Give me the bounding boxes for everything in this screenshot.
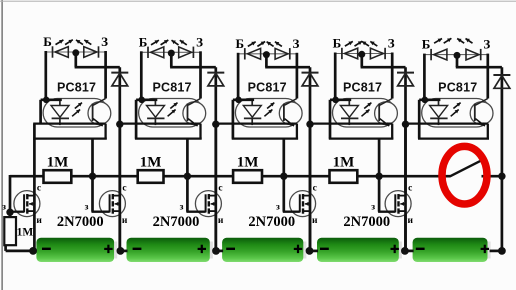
node gate node 4 [375,173,382,180]
wire right collector rail cell 5 [486,54,489,99]
wire emitter drop cell 3 [282,139,285,177]
LED VD5 Б white indicator [244,48,246,59]
battery GB3 [222,238,303,262]
opto U3 internal LED [251,100,253,106]
opto U2 phototransistor [187,104,189,122]
svg-text:и: и [408,216,414,226]
transistor VT1 2N7000 body [14,191,40,217]
label plus GB3 [294,248,302,250]
transistor VT1 drain/source taps and bulk arrow [27,195,34,197]
svg-text:з: з [180,203,184,213]
battery GB4 [317,238,399,262]
wire emitter drop cell 1 [91,139,94,177]
frame top border [0,1,516,2]
wire right collector rail cell 1 [104,51,107,99]
opto U4 internal LED [348,100,350,106]
wire box top edge cell 2 [119,122,201,124]
wire LED row cell 2 [141,51,200,53]
svg-text:з: з [276,203,280,213]
battery GB5 [413,238,488,262]
svg-text:с: с [122,183,126,193]
svg-text:з: з [85,203,89,213]
wire right collector rail cell 4 [391,53,394,99]
svg-text:с: с [37,183,41,193]
wire diode drop vertical cell 1 [118,67,121,251]
red highlight circle [442,146,487,204]
wire box right edge cell 1 [104,124,106,139]
opto U4 phototransistor [378,104,380,122]
svg-text:1M: 1M [140,154,162,170]
svg-text:Б: Б [139,34,148,49]
wire gate lead VT3 [186,211,205,213]
svg-text:1M: 1M [17,227,34,239]
svg-text:Б: Б [235,36,244,51]
LED VD2 З green indicator [98,46,100,57]
svg-text:З: З [388,36,395,51]
transistor VT3 drain/source taps and bulk arrow [209,195,216,197]
wire box right edge cell 5 [487,124,489,139]
node LED junction cell 5 [454,52,461,59]
svg-text:PC817: PC817 [57,80,96,94]
transistor VT4 channel [302,194,304,199]
battery GB2 [127,238,210,262]
wire R5 to battery [4,245,7,251]
label plus GB2 [198,248,206,250]
svg-text:2N7000: 2N7000 [248,214,295,230]
opto U2 light arrows [168,110,176,117]
wire left LED-string drop cell 4 [334,53,337,100]
op­tocoupler U5 PC817 body [422,99,491,128]
node pin1 cell 2 [138,97,145,104]
wire gate drop VT5 [378,176,381,212]
wire switch right stub [482,175,502,178]
svg-text:PC817: PC817 [343,80,382,94]
wire drain-source vertical VT5 [404,124,407,251]
resistor R2 1M [138,170,164,183]
opto U2 internal LED [154,100,156,106]
wire gate drop VT2 [91,176,94,212]
wire emitter drop cell 2 [186,139,189,177]
node diode-box junction cell 1 [116,121,123,128]
node pin1 cell 1 [43,97,50,104]
wire drain-source vertical VT4 [309,124,312,251]
wire gate lead VT4 [283,211,300,213]
node LED junction cell 4 [358,51,365,58]
wire gate drop VT4 [282,176,285,212]
wire box bottom edge cell 1 [33,137,107,139]
label plus GB5 [481,248,489,250]
wire box right edge cell 2 [199,124,201,139]
svg-text:и: и [218,216,224,226]
op­tocoupler U4 PC817 body [333,99,396,128]
svg-text:с: с [408,183,412,193]
wire resistor row segment 4 [262,175,330,178]
transistor VT1 gate bar [23,194,25,212]
wire box top edge cell 3 [215,122,297,124]
wire diode drop vertical cell 3 [309,67,312,251]
wire middle-node to diode cell 5 [456,55,459,68]
node diode-box junction cell 2 [212,121,219,128]
transistor VT2 gate bar [109,194,111,212]
wire left LED-string drop cell 1 [44,51,47,100]
svg-text:Б: Б [43,34,52,49]
wire LED row cell 3 [238,53,297,55]
label plus GB1 [104,248,112,250]
wire left LED-string drop cell 3 [237,53,240,100]
wire battery links [117,250,127,253]
node gate VT1 [6,209,13,216]
wire box bottom edge cell 2 [135,137,202,139]
node gate node 2 [184,173,191,180]
svg-text:и: и [312,216,318,226]
opto U3 phototransistor [283,104,285,122]
wire middle-node to diode cell 2 [170,52,173,67]
wire pin1 anode link cell 2 [136,98,157,101]
transistor VT2 drain/source taps and bulk arrow [113,195,120,197]
wire box left / pin1 vertical cell 3 [232,100,235,139]
svg-text:з: з [371,203,375,213]
diode VD14 cell 4 [397,72,414,74]
diode VD13 cell 3 [302,72,319,74]
svg-text:1M: 1M [333,154,355,170]
wire middle-node to diode cell 1 [74,52,77,67]
svg-text:с: с [218,183,222,193]
wire pin1 anode link cell 5 [419,98,440,101]
resistor R1 1M [44,170,72,183]
wire pin1 anode link cell 3 [233,98,254,101]
node LED junction cell 2 [168,50,175,57]
transistor VT5 drain/source taps and bulk arrow [399,195,406,197]
wire middle-node to diode cell 3 [265,54,268,67]
wire box left / pin1 vertical cell 5 [418,100,421,139]
wire gate lead VT5 [378,211,395,213]
svg-text:и: и [36,216,42,226]
wire pin1 anode link cell 1 [41,98,62,101]
wire box bottom edge cell 4 [329,137,394,139]
label minus GB3 [226,248,235,250]
node pin1 cell 4 [332,97,339,104]
battery GB1 [36,238,114,262]
svg-text:2N7000: 2N7000 [57,214,104,230]
LED VD1 Б white indicator [52,46,54,57]
svg-text:з: з [2,203,6,213]
LED VD10 З green indicator [480,49,482,60]
node LED junction cell 3 [263,51,270,58]
svg-text:З: З [483,37,490,52]
LED VD4 З green indicator [192,47,194,58]
svg-text:2N7000: 2N7000 [343,214,390,230]
wire left LED-string drop cell 5 [423,54,426,100]
wire gate bus left rail [9,175,12,217]
node switch-rail junction [498,173,505,180]
wire resistor row segment 2 [71,175,137,178]
svg-text:PC817: PC817 [438,80,477,94]
LED VD9 Б white indicator [430,49,432,60]
transistor VT4 drain/source taps and bulk arrow [303,195,310,197]
transistor VT2 channel [112,194,114,199]
svg-text:Б: Б [422,37,431,52]
wire right collector rail cell 3 [296,53,299,99]
wire LED row cell 5 [424,54,487,56]
wire right collector rail cell 2 [199,51,202,98]
op­tocoupler U2 PC817 body [139,99,204,128]
resistor R4 1M [330,170,358,183]
svg-text:PC817: PC817 [248,80,287,94]
transistor VT5 channel [397,194,399,199]
wire box left / pin1 vertical cell 4 [329,100,332,139]
wire box top edge cell 1 [33,122,105,124]
wire resistor row segment 3 [164,175,234,178]
diode VD12 cell 2 [207,72,224,74]
opto U4 light arrows [362,110,370,117]
wire gate lead VT2 [92,211,110,213]
label minus GB2 [133,248,142,250]
transistor VT4 gate bar [299,194,301,212]
label minus GB4 [320,248,329,250]
wire resistor row segment 1 [10,175,44,178]
svg-text:PC817: PC817 [152,80,191,94]
wire box right edge cell 4 [391,124,393,139]
frame left border [2,0,3,290]
label minus GB5 [416,248,425,250]
opto U5 light arrows [451,110,459,117]
wire box left / pin1 vertical cell 1 [39,100,42,124]
svg-text:З: З [101,34,108,49]
svg-text:с: с [313,183,317,193]
svg-text:З: З [292,36,299,51]
resistor R5 1M vertical [4,217,16,245]
transistor VT3 channel [208,194,210,199]
wire box bottom edge cell 5 [418,137,489,139]
node diode-box junction cell 4 [402,121,409,128]
node LED junction cell 1 [72,49,79,56]
node pin1 cell 3 [235,97,242,104]
opto U5 phototransistor [474,104,476,122]
opto U3 light arrows [264,110,272,117]
wire box top edge cell 4 [309,122,392,124]
wire diode drop vertical cell 2 [214,67,217,251]
node diode-box junction cell 3 [306,121,313,128]
transistor VT3 gate bar [205,194,207,212]
label minus GB1 [42,248,51,250]
wire emitter drop cell 4 [378,139,381,177]
wire box bottom edge cell 3 [232,137,298,139]
label plus GB4 [391,248,399,250]
diode VD11 cell 1 [111,72,128,74]
transistor VT5 2N7000 body [385,191,411,217]
svg-text:Б: Б [333,36,342,51]
opto U1 light arrows [72,110,80,117]
LED VD8 З green indicator [384,48,386,59]
node pin1 cell 5 [422,97,429,104]
wire diode drop vertical cell 5 [501,67,504,251]
transistor VT2 2N7000 body [99,191,125,217]
node gate node 1 [89,173,96,180]
opto U5 internal LED [438,100,440,106]
wire gate lead VT1 [9,211,24,213]
transistor VT3 2N7000 body [195,191,221,217]
wire drain-source vertical VT2 [118,124,121,251]
wire box left / pin1 vertical cell 2 [135,100,138,139]
resistor R3 1M [233,170,262,183]
wire left LED-string drop cell 2 [140,51,143,100]
wire drain-source vertical VT3 [214,124,217,251]
LED VD6 З green indicator [289,48,291,59]
wire middle-node to diode cell 4 [360,54,363,68]
LED VD7 Б white indicator [341,48,343,59]
wire LED row cell 4 [335,53,392,55]
node battery junctions [29,247,37,255]
diode VD15 cell 5 [493,74,510,76]
svg-text:2N7000: 2N7000 [153,214,200,230]
wire box top edge cell 5 [404,122,488,124]
wire diode drop vertical cell 4 [404,67,407,251]
svg-text:и: и [122,216,128,226]
wire pin1 anode link cell 4 [330,98,351,101]
opto U1 internal LED [59,100,61,106]
svg-text:1M: 1M [47,154,69,170]
node gate node 3 [280,173,287,180]
switch SA1 blade [450,161,479,176]
svg-text:З: З [196,34,203,49]
transistor VT5 gate bar [394,194,396,212]
transistor VT1 channel [26,194,28,199]
wire box right edge cell 3 [296,124,298,139]
op­tocoupler U3 PC817 body [235,99,299,128]
wire LED row cell 1 [46,51,106,53]
op­tocoupler U1 PC817 body [43,99,108,128]
transistor VT4 2N7000 body [290,191,316,217]
LED VD3 Б white indicator [147,47,149,58]
wire gate drop VT3 [186,176,189,212]
svg-text:1M: 1M [237,154,259,170]
opto U1 phototransistor [92,104,94,122]
wire resistor row segment 5 [357,175,450,178]
wire drain-source vertical VT1 [33,139,36,251]
